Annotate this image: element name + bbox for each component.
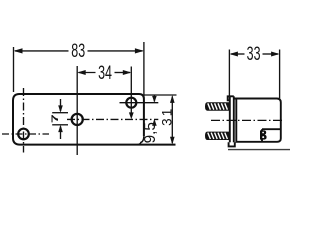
svg-text:7: 7 — [49, 114, 60, 123]
svg-text:33: 33 — [247, 43, 261, 64]
svg-text:9,5: 9,5 — [142, 122, 159, 143]
svg-text:31: 31 — [160, 106, 175, 125]
svg-text:34: 34 — [98, 62, 112, 83]
svg-text:83: 83 — [71, 40, 85, 61]
